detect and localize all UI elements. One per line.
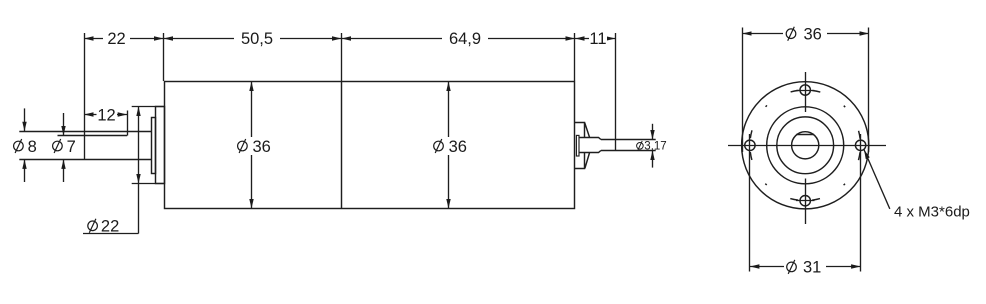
dim 50,5 text bbox=[234, 34, 280, 43]
svg-text:8: 8 bbox=[28, 138, 37, 156]
rear shaft stub top bbox=[579, 138, 601, 140]
shaft flat line bbox=[58, 135, 128, 137]
bolt hole top bbox=[800, 85, 810, 95]
dim 12 line bbox=[84, 114, 127, 116]
dim phi36 left line upper bbox=[251, 82, 253, 138]
front washer circle bbox=[777, 117, 834, 174]
front washer plate bbox=[152, 118, 156, 174]
dim phi8 top arrow bbox=[24, 108, 26, 131]
dim 12 extension line right bbox=[127, 111, 129, 136]
front boss circle bbox=[767, 107, 844, 184]
dim 11 line bbox=[575, 38, 616, 40]
dim phi36 front line bbox=[742, 33, 869, 35]
dim 50,5 extension line right bbox=[341, 33, 343, 81]
dim phi22 extension bottom bbox=[132, 183, 164, 185]
dim phi8 label bbox=[14, 139, 24, 153]
front flange boss bbox=[156, 107, 165, 184]
dim phi22 label bbox=[88, 219, 98, 233]
dim phi36 left line lower bbox=[251, 155, 253, 209]
dim phi31 line bbox=[750, 266, 861, 268]
dim phi36 right label bbox=[434, 139, 444, 153]
dim 50,5 line bbox=[164, 38, 342, 40]
dim phi22 line bbox=[138, 107, 140, 184]
dim phi36 front label bbox=[783, 29, 827, 38]
dim phi7 top arrow bbox=[63, 113, 65, 136]
dim phi36 right line lower bbox=[448, 155, 450, 209]
dim phi8 bottom arrow bbox=[24, 159, 26, 182]
svg-text:36: 36 bbox=[449, 138, 467, 156]
dim 12 text bbox=[97, 110, 118, 119]
dim phi3,17 label bbox=[637, 141, 644, 151]
svg-text:50,5: 50,5 bbox=[241, 30, 273, 48]
dim phi31 extension right bbox=[860, 134, 862, 272]
dim 64,9 extension line right bbox=[574, 33, 576, 81]
bolt circle centerline bbox=[750, 90, 861, 201]
dim phi31 label bbox=[784, 262, 826, 271]
dim phi7 label bbox=[53, 139, 63, 153]
dim phi31 extension left bbox=[749, 134, 751, 272]
leader line M3 bbox=[864, 150, 890, 209]
motor body section line bbox=[341, 82, 343, 209]
svg-text:31: 31 bbox=[803, 258, 821, 276]
bolt hole bottom centerline vertical bbox=[805, 179, 807, 225]
bolt hole top centerline vertical bbox=[805, 72, 807, 112]
dim 22 extension line left bbox=[84, 33, 86, 159]
front horizontal centerline bbox=[728, 145, 886, 147]
output shaft bottom line bbox=[19, 159, 152, 161]
dim phi22 extension top bbox=[132, 106, 164, 108]
svg-text:11: 11 bbox=[589, 30, 606, 48]
svg-text:64,9: 64,9 bbox=[449, 30, 481, 48]
rear shaft thin bottom line bbox=[601, 150, 656, 152]
front bore flat chord bbox=[796, 134, 814, 136]
dim 11 extension line right bbox=[615, 33, 617, 151]
svg-text:4 x M3*6dp: 4 x M3*6dp bbox=[894, 204, 970, 221]
bolt hole top centerline horizontal bbox=[796, 90, 815, 92]
rear boss bottom edge bbox=[575, 153, 590, 169]
rear shaft stub bottom bbox=[579, 151, 601, 153]
svg-text:12: 12 bbox=[97, 107, 115, 125]
dim phi36 left label bbox=[238, 139, 248, 153]
svg-text:22: 22 bbox=[101, 217, 119, 235]
dim phi36 right line upper bbox=[448, 82, 450, 138]
motor body outline bbox=[165, 82, 575, 209]
dim phi36 front extension right bbox=[868, 28, 870, 153]
bolt hole bottom bbox=[800, 196, 810, 206]
dim 64,9 line bbox=[342, 38, 576, 40]
svg-text:7: 7 bbox=[67, 138, 76, 156]
dim phi22 leader vertical bbox=[138, 184, 140, 234]
rear boss top edge bbox=[575, 123, 590, 138]
svg-text:3,17: 3,17 bbox=[644, 141, 666, 153]
front bore circle bbox=[792, 132, 819, 159]
dim phi22 leader horizontal bbox=[83, 233, 139, 235]
dim 22 line bbox=[84, 38, 164, 40]
svg-text:22: 22 bbox=[107, 30, 125, 48]
dim 22 extension line right bbox=[163, 33, 165, 81]
svg-text:36: 36 bbox=[804, 25, 822, 43]
front outer circle bbox=[742, 82, 869, 209]
dim 64,9 text bbox=[442, 34, 488, 43]
bolt hole left bbox=[745, 140, 755, 150]
dim phi7 bottom arrow bbox=[63, 159, 65, 182]
bolt hole bottom centerline horizontal bbox=[796, 200, 815, 202]
dim 22 text bbox=[103, 34, 130, 43]
bolt hole right bbox=[855, 140, 865, 150]
output shaft top line bbox=[19, 131, 152, 133]
rear collar plate bbox=[576, 135, 579, 156]
dim phi3,17 bottom arrow bbox=[652, 151, 654, 168]
rear shaft thin top line bbox=[601, 139, 656, 141]
dim phi3,17 top arrow bbox=[652, 124, 654, 140]
dim phi36 front extension left bbox=[742, 28, 744, 153]
svg-text:36: 36 bbox=[253, 138, 271, 156]
dim 11 text bbox=[589, 34, 607, 43]
